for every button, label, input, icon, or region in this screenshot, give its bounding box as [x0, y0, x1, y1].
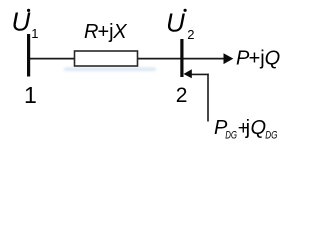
svg-text:2: 2: [176, 84, 188, 107]
svg-text:1: 1: [24, 82, 37, 108]
svg-text:+j: +j: [249, 48, 265, 70]
svg-text:DG: DG: [225, 129, 237, 141]
svg-text:Q: Q: [265, 48, 281, 70]
svg-text:j: j: [245, 117, 250, 139]
svg-text:R: R: [84, 21, 98, 43]
node label 1 below bus 1: [24, 82, 37, 108]
label P+jQ: [236, 48, 280, 70]
svg-text:DG: DG: [265, 129, 278, 141]
svg-text:2: 2: [187, 27, 194, 42]
wire main line bus1 to arrow: [30, 58, 225, 60]
wire DG branch horizontal: [189, 73, 209, 75]
svg-text:U: U: [166, 7, 185, 37]
bus 1 bar: [27, 34, 30, 77]
wire DG branch vertical: [207, 74, 209, 122]
svg-text:1: 1: [31, 26, 38, 41]
node label U1 (phasor): [12, 6, 39, 41]
label PDG+jQDG: [214, 117, 278, 141]
svg-text:Q: Q: [251, 117, 267, 139]
svg-text:+j: +j: [98, 21, 114, 43]
bus 2 bar: [180, 39, 183, 77]
arrowhead P+jQ (load flow direction): [224, 53, 234, 64]
arrowhead DG injection into bus 2: [184, 69, 192, 78]
resistor R+jX box: [75, 51, 138, 66]
node label 2 below bus 2: [176, 84, 188, 107]
label R+jX: [84, 21, 127, 43]
node label U2 (phasor): [166, 7, 195, 41]
svg-text:X: X: [112, 21, 127, 43]
